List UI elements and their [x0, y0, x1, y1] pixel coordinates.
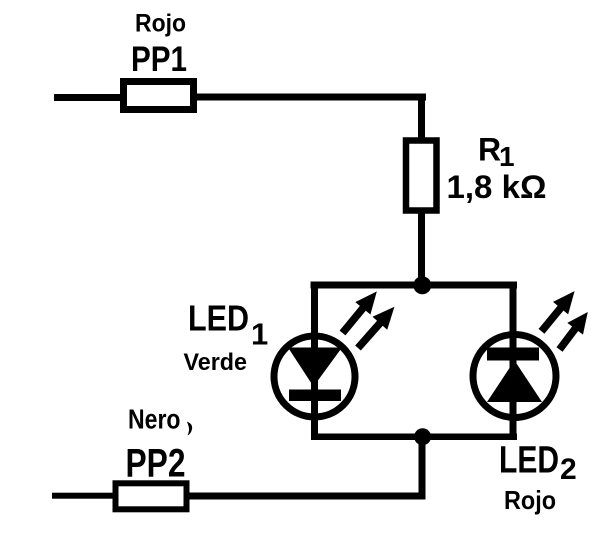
wire: LED2 vertical lead — [510, 282, 517, 440]
wire: left lead of PP2 — [52, 493, 116, 499]
wire: left lead of PP1 — [54, 94, 124, 101]
wire: bottom node down — [419, 437, 426, 500]
svg-text:2: 2 — [560, 453, 577, 486]
svg-text:PP1: PP1 — [131, 40, 187, 79]
wire: corner down to resistor R1 — [418, 95, 425, 140]
LED1 cathode bar — [289, 390, 341, 402]
svg-text:PP2: PP2 — [126, 442, 186, 486]
resistor R1 — [406, 141, 437, 211]
LED1 anode triangle — [288, 348, 342, 387]
svg-text:1,8 kΩ: 1,8 kΩ — [447, 169, 547, 205]
svg-text:Verde: Verde — [184, 349, 248, 376]
LED1 light arrow b — [351, 300, 402, 354]
wire: top rail of LED pair — [311, 282, 518, 289]
probe box PP1 — [124, 82, 194, 110]
LED1 body circle — [274, 336, 355, 417]
LED2 light arrow a — [534, 285, 582, 338]
svg-text:LED: LED — [188, 298, 249, 339]
wire: bottom rail of LED pair — [311, 434, 517, 441]
LED2 cathode bar — [487, 348, 539, 361]
probe box PP2 — [116, 483, 187, 509]
svg-text:LED: LED — [499, 440, 559, 482]
svg-text:R: R — [478, 132, 501, 168]
wire: bottom return to PP2 — [186, 493, 426, 500]
svg-text:Rojo: Rojo — [135, 10, 186, 38]
LED2 light arrow b — [552, 306, 596, 355]
wire: resistor R1 to top node — [418, 210, 425, 285]
LED1 light arrow a — [335, 285, 384, 339]
node: top junction — [413, 276, 431, 294]
LED2 anode triangle — [487, 361, 542, 403]
LED2 body circle — [473, 335, 556, 418]
wire: LED1 vertical lead — [311, 282, 318, 440]
wire: PP1 right lead to top corner — [193, 94, 426, 101]
svg-text:Rojo: Rojo — [504, 485, 556, 515]
node: bottom junction — [414, 428, 431, 445]
svg-text:Nero: Nero — [128, 404, 181, 435]
comma mark after Nero — [187, 422, 192, 436]
svg-text:1: 1 — [499, 141, 515, 172]
svg-text:1: 1 — [251, 317, 268, 352]
